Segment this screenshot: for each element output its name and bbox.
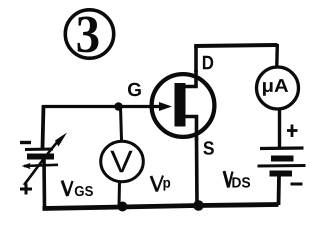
variable battery B1 (VGS source) (23, 149, 59, 169)
wire: voltmeter bottom lead (118, 182, 122, 207)
wire: gate junction down to voltmeter (121, 107, 122, 141)
wire: gate row horizontal (43, 105, 163, 108)
microammeter M1 (257, 67, 299, 109)
pin label D (203, 56, 213, 70)
wire: B1 bottom to bottom rail (42, 158, 46, 208)
wire: battery B2 bottom to bottom rail (277, 176, 281, 205)
transistor Q1 source internal lead (183, 117, 197, 141)
label: plus sign of battery B2 (287, 125, 298, 138)
node: gate junction (114, 102, 123, 111)
pin label S (203, 141, 213, 155)
wire: source lead down to bottom rail (195, 138, 199, 205)
transistor Q1 gate arrowhead (159, 102, 172, 111)
label: plus sign of battery B1 (20, 184, 32, 195)
wire: drain lead up to top rail (194, 46, 198, 72)
label VDS (224, 171, 250, 188)
label: minus sign of battery B2 (291, 183, 303, 186)
transistor Q1 body circle (152, 74, 215, 137)
arrow: variability diagonal through B1 (24, 133, 67, 186)
wire: microammeter to battery B2 (278, 109, 281, 147)
battery B2 (VDS source) (258, 148, 306, 174)
wire: left branch vertical to variable battery (43, 105, 44, 148)
node: voltmeter bottom junction (118, 202, 128, 212)
node: source junction on bottom rail (193, 200, 204, 211)
label VP (151, 176, 170, 192)
label VGS (62, 181, 93, 197)
wire: bottom rail (43, 205, 279, 209)
pin label G (128, 83, 141, 97)
voltmeter V (101, 141, 144, 181)
wire: top rail down to microammeter (275, 44, 279, 66)
transistor Q1 channel bar (175, 83, 186, 127)
label: minus sign of battery B1 (20, 141, 31, 144)
wire: top rail (194, 45, 277, 46)
transistor Q1 drain internal lead (183, 70, 196, 87)
figure number 3 (65, 10, 113, 58)
